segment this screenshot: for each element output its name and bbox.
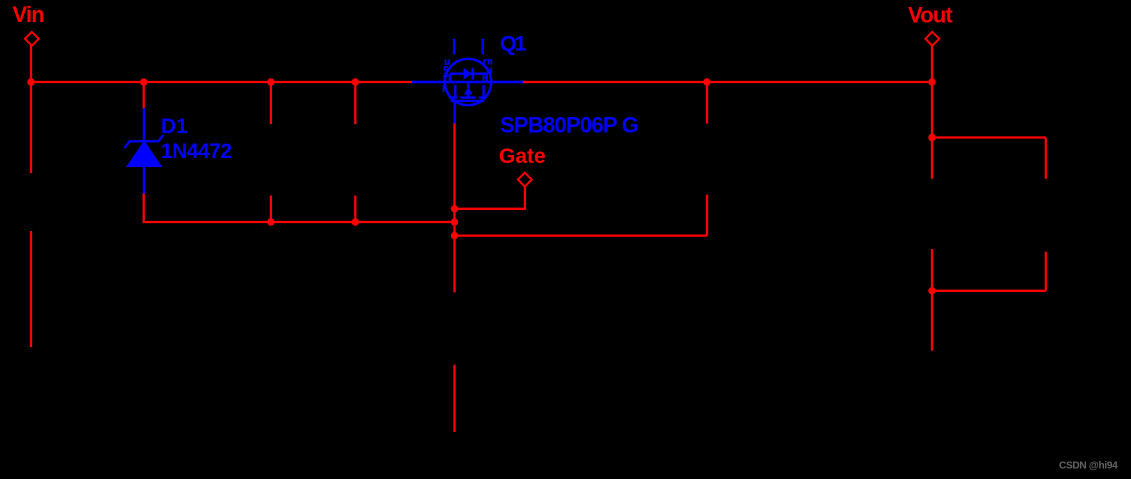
wire stub A lower (270, 196, 272, 223)
pin name glyph top-right (484, 60, 492, 65)
node junction D1 rail (140, 78, 147, 85)
body diode line (450, 74, 487, 82)
pin name glyph left2 (444, 67, 448, 74)
node junction stubA lower rail (267, 218, 274, 225)
body diode triangle (464, 68, 472, 80)
svg-text:Gate: Gate (499, 145, 546, 168)
svg-text:SPB80P06P G: SPB80P06P G (500, 112, 638, 137)
wire right branch upper (1045, 138, 1047, 179)
body diode cathode bar (471, 68, 474, 80)
pin name glyph right3 (484, 75, 487, 81)
wire D1 cathode lead red + lower rail (144, 194, 455, 223)
wire right bottom horizontal (932, 290, 1046, 292)
channel bar segments (449, 96, 486, 98)
pin stub top 1 (453, 39, 456, 55)
transistor Q1 PMOS (412, 39, 523, 124)
wire Vin vertical lower (30, 231, 32, 347)
pin name glyph right2 (488, 68, 492, 74)
gate bar (451, 100, 484, 102)
substrate arrow (464, 87, 473, 94)
substrate stem (467, 82, 469, 98)
wire stub A upper (270, 82, 272, 124)
wire D1 anode lead red (143, 82, 145, 109)
node junction stubB lower rail (352, 218, 359, 225)
node junction Vout bottom (928, 287, 935, 294)
wire stub B lower (354, 196, 356, 223)
diode D1 zener (125, 108, 164, 195)
node junction lower rail gate (451, 218, 458, 225)
pin gate lead (454, 101, 456, 124)
node junction mid wire gate (451, 232, 458, 239)
wire right top horizontal (932, 136, 1046, 138)
pin name glyph top-left (446, 60, 450, 65)
wire gate vertical upper (453, 124, 455, 293)
channel stub right (482, 85, 484, 97)
port Gate (518, 173, 532, 187)
svg-text:Vin: Vin (13, 2, 45, 27)
wire gate vertical lower (453, 365, 455, 432)
wire top rail left (30, 81, 412, 83)
svg-text:1N4472: 1N4472 (161, 140, 232, 163)
node junction gate wire (451, 205, 458, 212)
port Vin (25, 32, 39, 46)
pin source lead right (491, 81, 523, 83)
body circle (445, 59, 491, 105)
wire Vout vertical upper (931, 46, 933, 179)
pin name glyph left3 (443, 76, 450, 92)
port Vout (925, 32, 939, 46)
node junction stubA rail (267, 78, 274, 85)
node junction Vin rail (27, 78, 34, 85)
wire mid horizontal (455, 234, 708, 236)
wire right branch lower (1045, 252, 1047, 291)
channel stub left (454, 85, 456, 97)
diameter line (445, 81, 491, 83)
node junction Vout mid (928, 134, 935, 141)
node junction stubB rail (352, 78, 359, 85)
wire Vout vertical lower (931, 249, 933, 351)
wire stub C upper (706, 82, 708, 124)
svg-text:Vout: Vout (908, 2, 954, 27)
wire Gate label connection (455, 186, 525, 209)
pin stub top 2 (481, 39, 484, 55)
wire top rail right (523, 81, 932, 83)
svg-text:Q1: Q1 (500, 32, 527, 56)
node junction stubC rail (703, 78, 710, 85)
node junction Vout rail (928, 78, 935, 85)
pin drain lead left (412, 81, 445, 83)
wire Vin vertical upper (30, 46, 32, 173)
svg-text:D1: D1 (161, 115, 188, 138)
wire stub C lower (706, 195, 708, 236)
wire stub B upper (354, 82, 356, 124)
svg-text:CSDN @hi94: CSDN @hi94 (1059, 460, 1118, 471)
